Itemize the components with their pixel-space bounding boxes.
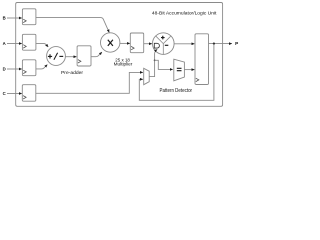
wire comparator to P register xyxy=(184,69,194,71)
comparator trapezoid xyxy=(174,59,185,81)
clock chevron register AD xyxy=(78,60,81,63)
ALU plus symbol xyxy=(161,36,165,40)
register C xyxy=(22,85,36,102)
pre-adder circle xyxy=(47,47,66,66)
svg-text:B: B xyxy=(3,16,6,21)
svg-text:A: A xyxy=(3,41,6,46)
wire B input xyxy=(7,17,22,19)
svg-text:Pre-adder: Pre-adder xyxy=(61,70,83,76)
wire mux branch to comparator xyxy=(155,60,173,69)
svg-text:Multiplier: Multiplier xyxy=(114,62,133,67)
multiplier X symbol xyxy=(108,40,113,46)
pre-adder minus symbol xyxy=(59,55,63,57)
junction dot P feedback xyxy=(213,43,215,45)
outer border of DSP slice xyxy=(16,3,223,107)
wire D input xyxy=(7,68,22,70)
pre-adder plus symbol xyxy=(48,54,52,58)
wire pre-adder to AD register xyxy=(65,56,76,58)
wire M register to ALU xyxy=(144,43,152,45)
wire ALU to P register xyxy=(174,43,194,45)
multiplier circle xyxy=(101,33,120,52)
ALU circle xyxy=(153,33,175,55)
wire A input xyxy=(7,43,22,45)
register D xyxy=(22,60,36,76)
register M xyxy=(130,33,143,53)
wire B register to multiplier xyxy=(36,18,109,33)
wire multiplier to M register xyxy=(120,42,130,44)
ALU minus symbol xyxy=(165,44,169,46)
register A xyxy=(22,34,36,50)
register AD xyxy=(77,46,91,66)
wire P feedback down and to mux xyxy=(139,44,214,101)
wire mux to ALU xyxy=(149,49,157,76)
clock chevron register A xyxy=(23,45,26,48)
wire AD register to multiplier xyxy=(91,52,102,57)
clock chevron register M xyxy=(131,46,134,49)
svg-text:48-Bit Accumulator/Logic Unit: 48-Bit Accumulator/Logic Unit xyxy=(152,11,217,17)
clock chevron register P xyxy=(196,78,199,81)
wire C register to mux xyxy=(36,72,143,93)
register B xyxy=(22,9,36,25)
junction dot mux output branch xyxy=(154,59,156,61)
pre-adder slash symbol xyxy=(54,53,58,60)
svg-text:P: P xyxy=(235,41,238,46)
svg-text:D: D xyxy=(3,67,6,72)
ALU logic gate symbol xyxy=(154,43,159,48)
mux trapezoid xyxy=(144,68,150,84)
clock chevron register C xyxy=(23,96,26,99)
svg-text:C: C xyxy=(3,91,6,96)
clock chevron register B xyxy=(23,19,26,22)
clock chevron register D xyxy=(23,70,26,73)
wire A register to pre-adder xyxy=(36,43,48,47)
comparator equals symbol xyxy=(177,68,182,70)
svg-text:Pattern Detector: Pattern Detector xyxy=(160,88,193,94)
register P (tall output register) xyxy=(195,34,209,85)
wire D register to pre-adder xyxy=(36,65,47,69)
wire C input xyxy=(7,93,22,95)
wire P register to output xyxy=(209,43,232,45)
ALU sector divider lines xyxy=(156,36,171,54)
